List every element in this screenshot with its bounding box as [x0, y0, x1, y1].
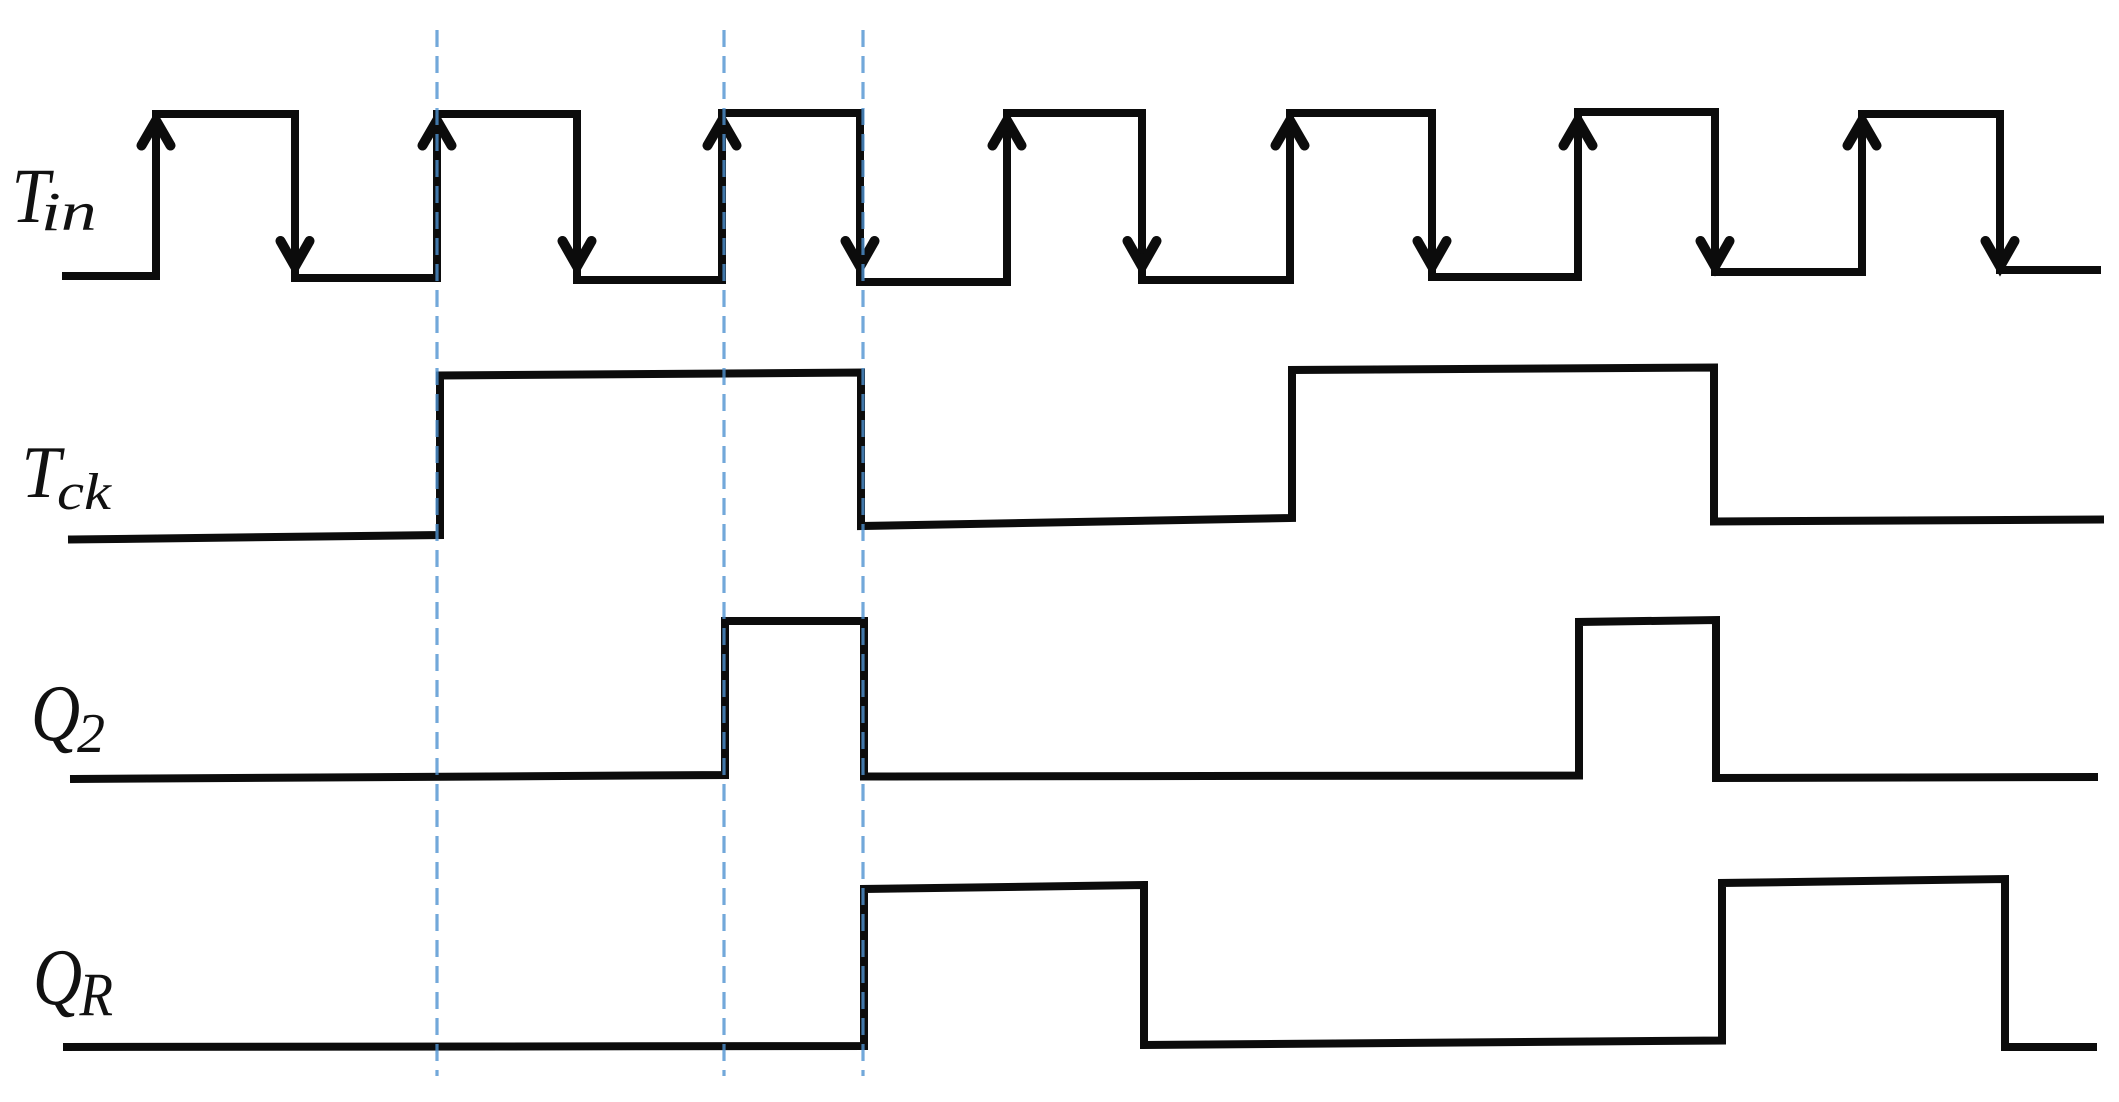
- svg-text:Q: Q: [33, 934, 82, 1022]
- svg-text:ck: ck: [57, 464, 112, 521]
- svg-text:in: in: [41, 181, 97, 242]
- svg-text:2: 2: [77, 703, 105, 765]
- svg-text:R: R: [79, 960, 113, 1028]
- svg-text:Q: Q: [31, 670, 80, 758]
